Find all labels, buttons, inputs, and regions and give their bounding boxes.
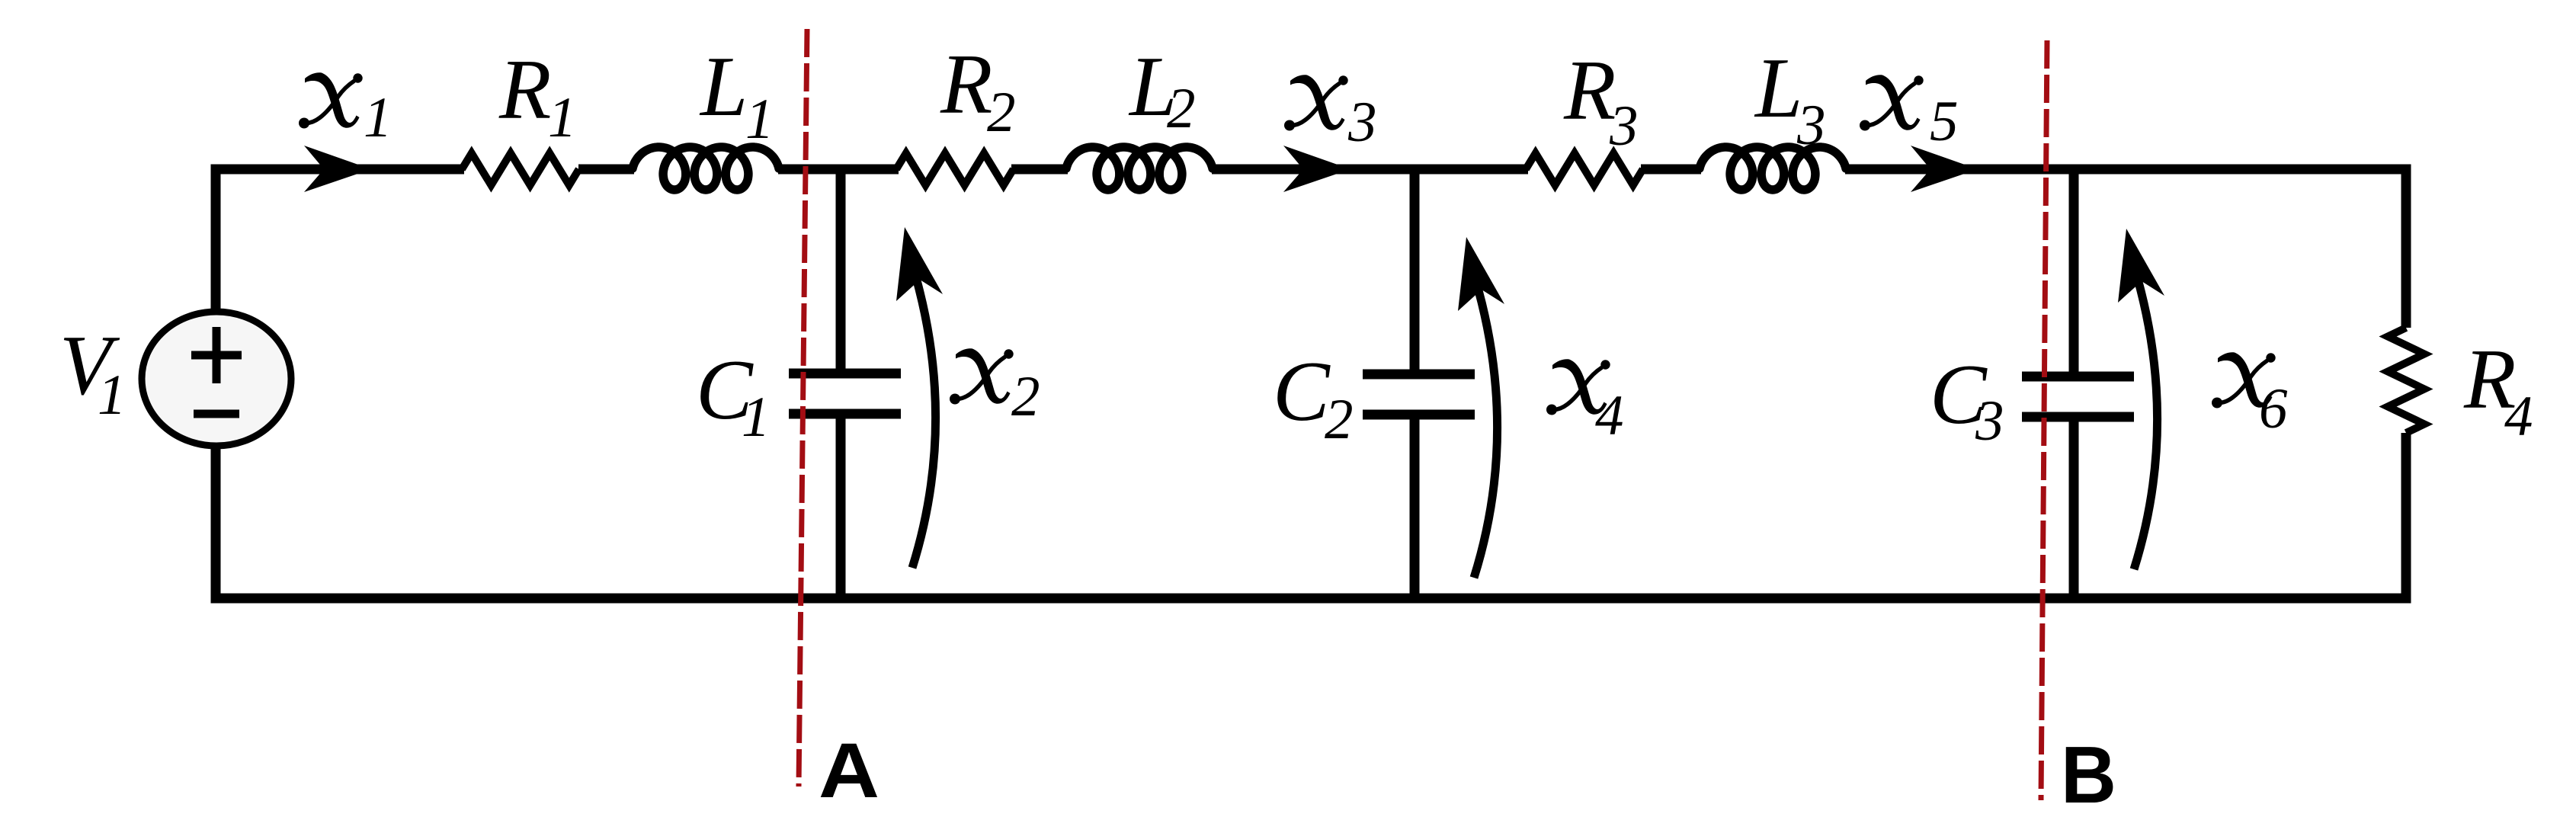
svg-text:6: 6: [2259, 377, 2288, 441]
svg-text:2: 2: [987, 81, 1016, 144]
svg-text:B: B: [2061, 730, 2116, 817]
svg-text:L: L: [1754, 41, 1802, 136]
svg-text:1: 1: [742, 386, 771, 449]
svg-text:2: 2: [1011, 365, 1040, 428]
svg-text:3: 3: [1347, 91, 1377, 154]
svg-text:C: C: [1273, 344, 1331, 439]
svg-text:4: 4: [2504, 385, 2533, 448]
svg-text:1: 1: [98, 364, 127, 427]
svg-text:3: 3: [1975, 389, 2004, 453]
svg-text:3: 3: [1609, 95, 1639, 158]
svg-text:2: 2: [1325, 388, 1354, 451]
svg-text:1: 1: [548, 86, 577, 149]
svg-text:1: 1: [745, 88, 774, 151]
svg-text:2: 2: [1167, 77, 1196, 140]
svg-text:4: 4: [1595, 384, 1624, 447]
svg-text:R: R: [940, 37, 992, 132]
svg-text:R: R: [498, 43, 551, 137]
svg-text:1: 1: [364, 86, 392, 149]
svg-text:L: L: [699, 40, 748, 134]
svg-text:5: 5: [1930, 90, 1959, 153]
svg-text:A: A: [819, 727, 879, 814]
svg-text:R: R: [1563, 43, 1616, 138]
svg-text:3: 3: [1796, 94, 1826, 157]
